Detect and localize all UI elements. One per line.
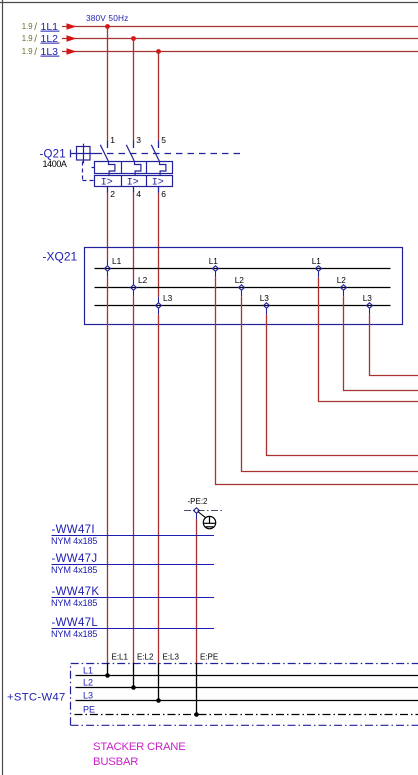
XQ21 busbar L2 — [95, 287, 391, 289]
svg-text:NYM 4x185: NYM 4x185 — [51, 536, 97, 546]
Q21 thermal element pole 1 — [109, 162, 115, 176]
svg-text:E:L2: E:L2 — [137, 653, 154, 662]
wire 1L3 drop to Q21 — [158, 52, 160, 141]
XQ21 busbar L1 — [95, 268, 391, 270]
svg-text:I>: I> — [152, 178, 164, 189]
frame border top — [0, 2, 418, 4]
wire Q21 pin 4 to XQ21 — [133, 193, 135, 279]
Q21 magnetic releases box row — [95, 176, 173, 187]
svg-text:E:PE: E:PE — [200, 653, 218, 662]
arrow 1L1 source — [67, 23, 77, 29]
cable WW47I line — [52, 535, 215, 537]
junction dot 1L2 tap — [131, 36, 136, 41]
svg-text:/: / — [34, 47, 37, 58]
Q21 pole 3 bottom lead — [158, 187, 160, 193]
Q21 linkage stub upper — [92, 167, 95, 169]
svg-text:L1: L1 — [209, 256, 219, 266]
svg-text:4: 4 — [136, 189, 141, 199]
wire 1L1 drop to Q21 — [107, 27, 109, 141]
svg-text:NYM 4x185: NYM 4x185 — [51, 629, 97, 639]
svg-text:L2: L2 — [138, 275, 148, 285]
arrow 1L2 source — [67, 35, 77, 41]
svg-text:E:L1: E:L1 — [112, 653, 129, 662]
Q21 thermal element pole 2 — [135, 162, 141, 176]
XQ21 terminal g1 L2 — [131, 279, 137, 296]
busbar L3 line — [76, 700, 418, 702]
Q21 pole 1 contact blade — [100, 145, 108, 162]
svg-text:-PE:2: -PE:2 — [188, 497, 209, 506]
wire Q21 pin 6 to XQ21 — [158, 193, 160, 297]
svg-text:+STC-W47: +STC-W47 — [7, 691, 66, 703]
svg-text:1400A: 1400A — [43, 159, 67, 169]
Q21 handle linkage drop — [83, 162, 95, 181]
XQ21 terminal g1 L3 — [156, 297, 162, 314]
wire 1L2 — [62, 38, 418, 40]
XQ21 terminal g2 L2 — [239, 285, 245, 296]
svg-text:NYM 4x185: NYM 4x185 — [51, 598, 97, 608]
wire L3 into busbar — [158, 663, 160, 701]
svg-text:380V 50Hz: 380V 50Hz — [86, 13, 128, 23]
Q21 handle symbol — [71, 144, 96, 164]
terminal strip XQ21 box — [85, 248, 403, 325]
terminal PE:2 diamond — [194, 508, 200, 519]
wire g1 L1 to busbar — [107, 277, 109, 663]
svg-text:6: 6 — [161, 189, 166, 199]
Q21 pole 2 contact blade — [126, 145, 134, 162]
svg-text:-WW47L: -WW47L — [52, 617, 99, 629]
arrow 1L3 source — [67, 48, 77, 54]
wire PE into busbar — [196, 663, 198, 715]
wire feeder g2 L1 — [216, 277, 418, 484]
Q21 pole 1 top lead — [107, 141, 109, 149]
wire feeder g3 L1 — [319, 277, 418, 401]
svg-text:L3: L3 — [83, 691, 93, 701]
svg-text:1: 1 — [110, 135, 115, 145]
svg-text:1.9: 1.9 — [22, 22, 33, 31]
cable WW47L line — [52, 628, 215, 630]
svg-text:L1: L1 — [112, 256, 122, 266]
wire L2 into busbar — [133, 663, 135, 688]
svg-text:L3: L3 — [260, 293, 270, 303]
wire feeder g2 L3 — [267, 314, 418, 455]
svg-text:L1: L1 — [312, 256, 322, 266]
wire Q21 pin 2 to XQ21 — [107, 193, 109, 260]
svg-text:E:L3: E:L3 — [163, 653, 180, 662]
junction dot busbar PE — [194, 712, 199, 717]
Q21 linkage dashed line — [96, 153, 241, 155]
svg-text:-WW47J: -WW47J — [52, 553, 98, 565]
wire feeder g3 L3 — [370, 314, 418, 375]
cable WW47K line — [52, 597, 215, 599]
wire feeder g2 L2 — [242, 296, 418, 471]
svg-text:3: 3 — [136, 135, 141, 145]
wire 1L2 drop to Q21 — [133, 39, 135, 141]
svg-text:STACKER CRANE: STACKER CRANE — [93, 741, 186, 753]
Q21 pole 3 contact blade — [151, 145, 159, 162]
wire 1L1 — [62, 26, 418, 28]
svg-text:L1: L1 — [83, 666, 93, 676]
busbar PE line — [75, 714, 418, 716]
wire L1 into busbar — [107, 663, 109, 676]
cable WW47J line — [52, 564, 215, 566]
wire feeder g3 L2 — [344, 296, 418, 390]
junction dot busbar L2 — [131, 685, 136, 690]
svg-text:NYM 4x185: NYM 4x185 — [51, 565, 97, 575]
svg-text:5: 5 — [161, 135, 166, 145]
svg-text:L2: L2 — [83, 678, 93, 688]
frame border left — [2, 0, 4, 775]
svg-text:-WW47K: -WW47K — [52, 586, 100, 598]
junction dot 1L3 tap — [156, 49, 161, 54]
Q21 thermal element pole 3 — [160, 162, 166, 176]
XQ21 terminal g3 L2 — [341, 285, 347, 296]
svg-text:L3: L3 — [163, 293, 173, 303]
Q21 pole 2 bottom lead — [133, 187, 135, 193]
Q21 pole 1 bottom lead — [107, 187, 109, 193]
earth connection diagonal — [198, 512, 206, 518]
svg-text:I>: I> — [101, 178, 113, 189]
potential line PE dash-dot — [184, 510, 222, 512]
Q21 pole 3 top lead — [158, 141, 160, 149]
junction dot busbar L1 — [105, 673, 110, 678]
XQ21 terminal g2 L1 — [213, 266, 219, 277]
node 1L3 label — [22, 46, 60, 58]
busbar L2 line — [76, 687, 418, 689]
svg-text:I>: I> — [127, 178, 139, 189]
wire g1 L3 to busbar — [158, 314, 160, 663]
svg-text:L2: L2 — [235, 275, 245, 285]
svg-text:L2: L2 — [337, 275, 347, 285]
svg-text:BUSBAR: BUSBAR — [93, 756, 138, 768]
XQ21 terminal g3 L1 — [316, 266, 322, 277]
svg-text:1.9: 1.9 — [22, 47, 33, 56]
Q21 thermal releases box row — [95, 162, 173, 174]
svg-text:-WW47I: -WW47I — [52, 524, 95, 536]
XQ21 terminal g2 L3 — [264, 303, 270, 314]
wire 1L3 — [62, 51, 418, 53]
junction dot 1L1 tap — [105, 24, 110, 29]
svg-text:1.9: 1.9 — [22, 34, 33, 43]
protective earth symbol — [203, 516, 216, 528]
junction dot busbar L3 — [156, 698, 161, 703]
svg-text:2: 2 — [110, 189, 115, 199]
XQ21 terminal g1 L1 — [105, 260, 111, 277]
svg-text:-XQ21: -XQ21 — [43, 250, 78, 264]
svg-text:L3: L3 — [363, 293, 373, 303]
node 1L1 label — [22, 21, 60, 33]
busbar L1 line — [76, 675, 418, 677]
Q21 pole 2 top lead — [133, 141, 135, 149]
svg-text:PE: PE — [83, 705, 95, 715]
wire PE drop — [196, 519, 198, 663]
busbar box STC-W47 — [71, 664, 418, 726]
XQ21 busbar L3 — [95, 305, 391, 307]
XQ21 terminal g3 L3 — [367, 303, 373, 314]
svg-text:/: / — [34, 34, 37, 45]
svg-text:/: / — [34, 22, 37, 33]
wire g1 L2 to busbar — [133, 296, 135, 663]
node 1L2 label — [22, 33, 60, 45]
